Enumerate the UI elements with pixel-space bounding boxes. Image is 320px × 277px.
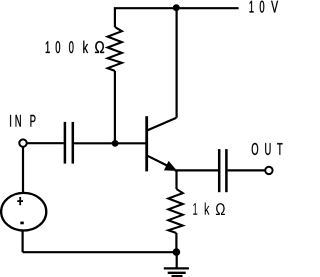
ground bar 3 — [172, 275, 183, 277]
junction dot at bottom node — [173, 248, 181, 256]
terminal OUT open circle — [265, 167, 272, 174]
source V1 plus sign — [17, 197, 23, 205]
wire C1 to transistor base — [74, 142, 146, 144]
label 100 k ohm (R1 value) — [46, 41, 104, 53]
capacitor C2 right plate — [225, 149, 228, 192]
wire R2 bottom lead — [175, 233, 177, 252]
label 1 k ohm (R2 value) — [193, 202, 225, 215]
label IN P — [10, 115, 35, 127]
wire source V1 top lead — [22, 148, 24, 193]
capacitor C2 left plate — [218, 149, 221, 192]
source V1 circle — [1, 193, 46, 231]
capacitor C1 right plate — [72, 122, 75, 164]
wire emitter node to capacitor C2 — [175, 169, 219, 171]
ground bar 2 — [168, 272, 186, 274]
wire emitter node down to R2 — [175, 170, 177, 189]
label OUT — [252, 143, 283, 155]
capacitor C1 left plate — [64, 122, 67, 164]
ground bar 1 — [164, 267, 189, 269]
wire top rail to 10V — [115, 8, 239, 27]
wire R1 bottom lead to base node — [114, 71, 116, 143]
junction dot at base node — [112, 140, 119, 147]
transistor Q1 emitter arrowhead — [164, 161, 177, 171]
wire ground stem — [176, 252, 178, 268]
transistor Q1 emitter diagonal — [148, 156, 170, 167]
wire IN P terminal to capacitor C1 — [27, 142, 64, 144]
transistor Q1 base bar — [145, 116, 148, 171]
wire bottom rail — [23, 251, 177, 253]
transistor Q1 collector diagonal — [148, 118, 177, 131]
label 10 V supply — [250, 1, 279, 13]
resistor R1 100k zigzag — [108, 27, 122, 71]
wire C2 to OUT terminal — [228, 169, 265, 171]
terminal IN P open circle — [19, 139, 26, 146]
junction dot on top rail — [173, 4, 180, 11]
wire source V1 bottom lead — [22, 231, 24, 252]
resistor R2 1k zigzag — [168, 189, 183, 233]
source V1 minus sign — [21, 222, 24, 224]
wire collector vertical — [176, 8, 178, 118]
